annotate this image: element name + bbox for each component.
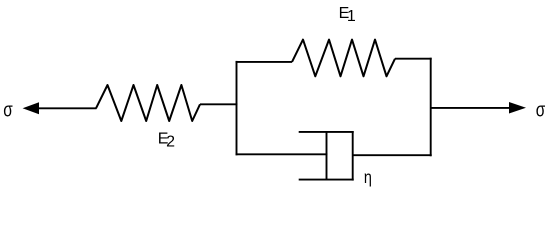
- spring E2: [96, 85, 200, 121]
- dashpot cylinder top wall: [299, 131, 354, 133]
- svg-text:σ: σ: [536, 99, 546, 121]
- wire dashpot to box right: [353, 154, 432, 156]
- dashpot cylinder right wall: [352, 131, 354, 181]
- diagram: standard linear solid viscoelastic model: [0, 0, 550, 191]
- wire left arrow shaft: [36, 107, 97, 109]
- wire box bottom left to dashpot piston rod: [236, 153, 328, 155]
- right arrowhead: [509, 102, 526, 114]
- wire right arrow shaft: [431, 107, 510, 109]
- svg-text:η: η: [364, 167, 372, 187]
- wire spring E2 to box: [200, 103, 238, 105]
- wire box left vertical: [236, 61, 238, 155]
- left arrowhead: [23, 102, 39, 114]
- wire spring E1 to box right: [395, 58, 432, 60]
- wire box top left: [236, 61, 293, 63]
- svg-text:σ: σ: [3, 99, 13, 121]
- dashpot piston plate: [326, 131, 328, 180]
- wire box right vertical: [430, 58, 432, 156]
- dashpot cylinder bottom wall: [299, 179, 354, 181]
- spring E1: [292, 40, 395, 77]
